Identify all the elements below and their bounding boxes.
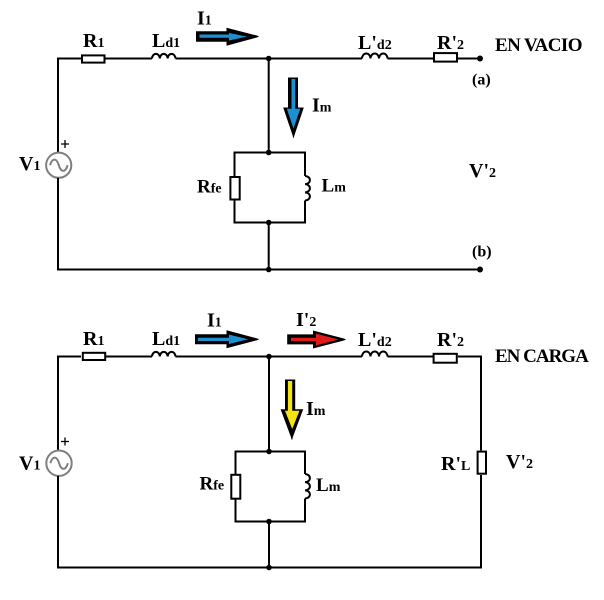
svg-text:I1: I1	[207, 310, 222, 332]
inductor Lm (bottom)	[305, 474, 310, 499]
svg-text:R1: R1	[83, 328, 104, 350]
svg-text:EN VACIO: EN VACIO	[495, 35, 582, 56]
wire: bottom horizontal of top circuit	[57, 269, 480, 271]
box left edge upper	[235, 451, 237, 475]
wire: Ld1 to L'd2	[176, 58, 363, 60]
svg-text:R'2: R'2	[437, 32, 464, 54]
junction node at box top	[266, 150, 272, 156]
plus sign of V1 (bottom)	[61, 438, 69, 446]
plus sign of V1 (top)	[61, 140, 69, 148]
svg-text:Lm: Lm	[316, 475, 341, 496]
svg-text:EN CARGA: EN CARGA	[495, 346, 589, 367]
svg-text:V1: V1	[19, 453, 40, 475]
svg-text:I'2: I'2	[296, 309, 316, 331]
svg-text:Ld1: Ld1	[152, 328, 180, 350]
wire: left vertical below source V1	[57, 476, 59, 569]
current arrow I1 (bottom, blue)	[195, 330, 259, 348]
svg-text:V1: V1	[19, 153, 40, 175]
resistor R1 (top)	[82, 55, 105, 62]
wire: left vertical above source V1	[57, 356, 59, 451]
resistor R'2 (bottom)	[434, 354, 457, 363]
wire: L'd2 to R'2	[388, 58, 434, 60]
box right edge upper	[304, 451, 306, 475]
svg-text:Rfe: Rfe	[197, 177, 222, 198]
svg-text:L'd2: L'd2	[358, 32, 392, 54]
wire: left vertical above source V1	[57, 58, 59, 153]
box left edge lower	[235, 499, 237, 523]
junction node on bottom wire	[266, 267, 272, 273]
magnetising branch box (top): top edge	[234, 152, 306, 154]
svg-text:V'2: V'2	[469, 160, 496, 182]
box left edge lower	[234, 201, 236, 224]
wire: middle vertical from top wire to magnetising branch	[268, 357, 270, 452]
current arrow I1 (top, blue)	[196, 28, 259, 46]
sine wave inside V1 (top)	[50, 160, 68, 171]
resistor Rfe (top)	[230, 177, 239, 200]
wire: R1 to Ld1	[106, 58, 153, 60]
terminal dot (b)	[477, 267, 483, 273]
resistor R1 (bottom)	[83, 353, 105, 360]
resistor R'2 (top)	[434, 53, 457, 62]
current arrow I'2 (bottom, red)	[287, 331, 345, 349]
junction node on bottom wire	[266, 565, 272, 571]
wire: R1 to Ld1	[106, 356, 153, 358]
svg-text:Im: Im	[312, 94, 332, 116]
magnetising branch box (bottom): top edge	[235, 451, 306, 453]
junction node at box top	[266, 449, 272, 455]
resistor Rfe (bottom)	[231, 475, 240, 499]
current arrow Im (bottom, yellow, downward)	[281, 380, 304, 440]
svg-text:I1: I1	[197, 8, 212, 30]
wire: Ld1 to L'd2	[176, 356, 363, 358]
svg-text:Ld1: Ld1	[152, 30, 180, 52]
svg-text:(b): (b)	[472, 244, 492, 261]
inductor L'd2 (bottom)	[362, 352, 388, 357]
inductor Ld1 (top)	[152, 54, 175, 59]
wire: right vertical below R'L	[480, 475, 482, 569]
wire: L'd2 to R'2	[388, 356, 434, 358]
wire: left vertical below source V1	[57, 178, 59, 271]
box bottom edge	[235, 521, 306, 523]
svg-text:L'd2: L'd2	[358, 329, 392, 351]
box left edge upper	[234, 152, 236, 177]
box right edge lower	[304, 201, 306, 224]
inductor Lm (top)	[305, 176, 310, 201]
svg-text:V'2: V'2	[506, 451, 533, 473]
wire: R'2 to open terminal (a)	[458, 58, 480, 60]
box right edge lower	[304, 499, 306, 523]
sine wave inside V1 (bottom)	[50, 458, 68, 469]
wire: middle vertical from box to bottom wire	[268, 522, 270, 568]
svg-text:R1: R1	[83, 30, 104, 52]
box right edge upper	[304, 152, 306, 177]
terminal dot (a)	[477, 56, 483, 62]
wire: right vertical above R'L	[480, 356, 482, 451]
box bottom edge	[234, 222, 306, 224]
wire: R'2 to right corner	[458, 356, 482, 358]
junction node on top wire	[266, 56, 272, 62]
wire: top-left horizontal segment to R1	[57, 58, 81, 60]
junction node on top wire	[266, 354, 272, 360]
junction node at box bottom	[266, 519, 272, 525]
svg-text:(a): (a)	[472, 72, 491, 89]
wire: middle vertical from top wire to magnetising branch	[268, 59, 270, 153]
svg-text:Rfe: Rfe	[200, 474, 225, 495]
inductor Ld1 (bottom)	[152, 352, 175, 357]
svg-text:R'L: R'L	[441, 453, 470, 475]
svg-text:Lm: Lm	[322, 176, 347, 197]
junction node at box bottom	[266, 220, 272, 226]
inductor L'd2 (top)	[362, 54, 388, 59]
source V1 (top)	[46, 153, 71, 178]
resistor R'L (load)	[478, 452, 486, 474]
wire: bottom horizontal of bottom circuit	[57, 567, 482, 569]
svg-text:R'2: R'2	[437, 329, 464, 351]
wire: middle vertical from box to bottom wire	[268, 223, 270, 270]
source V1 (bottom)	[46, 451, 71, 476]
current arrow Im (top, blue, downward)	[283, 78, 304, 138]
svg-text:Im: Im	[306, 398, 326, 420]
wire: top-left horizontal segment to R1	[57, 356, 81, 358]
